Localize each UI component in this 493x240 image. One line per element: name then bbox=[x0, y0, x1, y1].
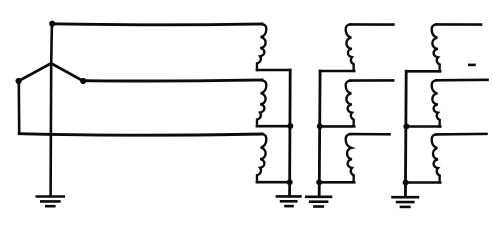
winding L1B (group1 phase C) bbox=[257, 80, 266, 126]
wire wye left branch diagonal bbox=[19, 63, 52, 81]
ground G4 (group3 neutral) bbox=[393, 197, 418, 207]
wire L2A top terminal right bbox=[350, 23, 393, 26]
wire L1B bottom to bus1 bbox=[257, 125, 290, 128]
ground G2 (group1 neutral) bbox=[277, 196, 301, 206]
wire L2C bottom to bus2 bbox=[319, 181, 354, 184]
winding L3A (group3 phase a) bbox=[432, 25, 440, 72]
winding L3B (group3 phase c) bbox=[432, 80, 440, 126]
wire from node A down to wye center bbox=[50, 24, 53, 64]
wire L3C bottom to bus3 bbox=[406, 181, 441, 184]
wire source neutral vertical bbox=[49, 63, 52, 196]
node A (phase A terminal) bbox=[50, 21, 55, 26]
junction dot bus2/L2B bbox=[317, 124, 322, 129]
winding L2A (group2 phase a) bbox=[346, 25, 354, 72]
wire L1A bottom to bus1 bbox=[257, 69, 290, 72]
wire bus3 vertical (neutral of group3) bbox=[404, 71, 408, 197]
junction dot bus1/L1C bbox=[287, 180, 292, 185]
winding L1A (group1 phase A) bbox=[257, 24, 266, 70]
junction dot bus3/L3B bbox=[404, 124, 409, 129]
winding L3C (group3 phase b) bbox=[432, 135, 440, 183]
artifact mark (scan speck) bbox=[469, 64, 474, 67]
wire wye right branch diagonal bbox=[51, 63, 83, 81]
wire L2C top terminal right bbox=[350, 133, 390, 136]
winding L2B (group2 phase c) bbox=[346, 81, 354, 127]
ground G3 (group2 neutral) bbox=[306, 197, 331, 207]
node B (phase B terminal) bbox=[16, 78, 21, 83]
node C (phase C terminal) bbox=[81, 78, 86, 83]
junction dot bus3/L3C bbox=[403, 180, 408, 185]
wire L2B bottom to bus2 bbox=[320, 125, 355, 128]
wire phase-A top horizontal bbox=[51, 22, 262, 26]
winding L1C (group1 phase B) bbox=[257, 134, 266, 182]
wire phase-B bottom horizontal bbox=[19, 134, 262, 136]
wire L2B top terminal right bbox=[350, 79, 393, 82]
wire L3B bottom to bus3 bbox=[406, 125, 440, 128]
winding L2C (group2 phase b) bbox=[346, 134, 354, 182]
junction dot bus2/L2C bbox=[317, 180, 322, 185]
wire bus1 vertical (neutral of group1) bbox=[288, 70, 291, 196]
wire bus2 vertical (neutral of group2) bbox=[318, 71, 322, 197]
wire L2A bottom to bus2 bbox=[320, 70, 354, 73]
wire L3C top terminal right bbox=[436, 133, 487, 136]
ground G1 (source neutral) bbox=[37, 197, 64, 207]
wire L3A bottom to bus3 bbox=[406, 70, 440, 73]
wire L1C bottom to bus1 bbox=[257, 181, 290, 184]
wire L3A top terminal right bbox=[436, 23, 481, 26]
wire node B vertical drop bbox=[17, 81, 20, 134]
wire L3B top terminal right bbox=[436, 79, 488, 82]
junction dot bus1/L1B bbox=[288, 124, 293, 129]
wire phase-C middle horizontal bbox=[83, 80, 262, 81]
